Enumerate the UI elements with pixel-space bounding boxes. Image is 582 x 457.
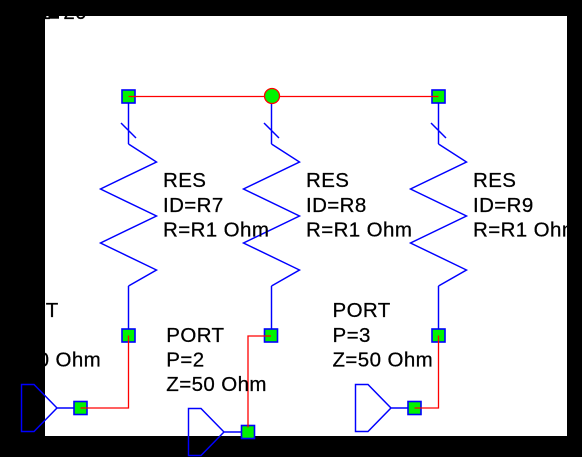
- svg-text:ID=R7: ID=R7: [163, 194, 224, 217]
- svg-text:R=R1 Ohm: R=R1 Ohm: [473, 219, 579, 242]
- junction node circle: [265, 89, 280, 104]
- port P2 symbol: [189, 409, 242, 456]
- svg-text:Z=50 Ohm: Z=50 Ohm: [166, 373, 267, 396]
- node square top of R7: [122, 90, 135, 103]
- svg-text:RES: RES: [473, 169, 516, 192]
- svg-text:RES: RES: [163, 169, 206, 192]
- resistor R7 symbol: [101, 103, 157, 329]
- port P3 symbol: [356, 385, 409, 432]
- svg-text:Z=50 Ohm: Z=50 Ohm: [333, 348, 434, 371]
- node square bottom of R7: [122, 329, 135, 342]
- node square top of R9: [432, 90, 445, 103]
- node square port P3: [408, 402, 421, 415]
- node square port P1: [74, 402, 87, 415]
- svg-text:R=R1 Ohm: R=R1 Ohm: [306, 219, 412, 242]
- svg-text:ID=R8: ID=R8: [306, 194, 367, 217]
- svg-text:R1=20: R1=20: [24, 1, 87, 24]
- node square bottom of R9: [432, 329, 445, 342]
- svg-text:P=1: P=1: [1, 324, 39, 347]
- svg-text:PORT: PORT: [333, 299, 391, 322]
- port P1 symbol: [22, 385, 75, 432]
- svg-text:P=3: P=3: [333, 324, 371, 347]
- svg-text:Z=50 Ohm: Z=50 Ohm: [1, 348, 102, 371]
- wire port P1 to R7: [81, 336, 129, 409]
- node square port P2: [242, 426, 255, 439]
- svg-text:P=2: P=2: [166, 348, 204, 371]
- svg-text:PORT: PORT: [1, 299, 59, 322]
- svg-text:R=R1 Ohm: R=R1 Ohm: [163, 219, 269, 242]
- wire port P3 to R9: [415, 336, 439, 409]
- resistor R8 symbol: [244, 104, 300, 329]
- svg-text:PORT: PORT: [166, 324, 224, 347]
- wire port P2 to R8: [248, 336, 271, 428]
- node square bottom of R8: [265, 329, 278, 342]
- resistor R9 symbol: [411, 103, 467, 329]
- svg-text:RES: RES: [306, 169, 349, 192]
- wire top rail: [129, 96, 439, 98]
- svg-text:ID=R9: ID=R9: [473, 194, 534, 217]
